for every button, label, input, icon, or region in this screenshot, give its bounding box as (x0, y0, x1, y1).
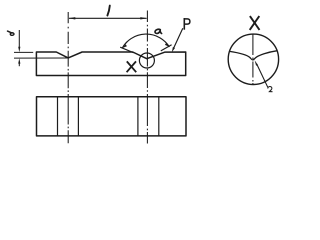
detail radius label (rho/2 glyph) (268, 86, 273, 91)
V2 left face extension line (120, 47, 133, 53)
notch 1 right edge line (plan view) (77, 97, 79, 136)
alpha arc arrowhead left (122, 44, 127, 48)
notch root reference line (d extension, lower) (14, 57, 68, 59)
bottom view outline (37, 97, 187, 136)
label d (rotated, dimension text) (8, 31, 14, 35)
label X above detail view (250, 16, 260, 30)
l dimension line (69, 17, 147, 19)
centerline 1 (notch 1 axis) (67, 12, 69, 143)
label P (applied force) (184, 18, 190, 30)
detail view centerline (252, 34, 254, 84)
force P leader line (173, 28, 183, 49)
d extension line (top) (14, 51, 33, 53)
notch 1 left edge line (plan view) (57, 97, 59, 136)
V2 right face extension line (161, 45, 172, 51)
detail leader arrowhead (255, 60, 258, 65)
angle dimension arc alpha (122, 34, 169, 48)
detail circle marker around notch 2 root (139, 53, 154, 68)
d dimension arrowhead down (18, 47, 20, 52)
d dimension line lower segment (18, 62, 20, 66)
notch 2 right edge line (plan view) (158, 97, 160, 136)
label l (length dimension text) (107, 6, 109, 16)
force P arrowhead (172, 47, 175, 52)
notch 2 left edge line (plan view) (137, 97, 139, 136)
l dimension arrowhead right (140, 17, 147, 19)
detail view circle (228, 34, 278, 84)
centerline 2 (notch 2 axis) (146, 11, 148, 144)
detail view notch faces with root radius (230, 51, 278, 60)
label alpha (notch angle) (155, 29, 162, 33)
alpha arc arrowhead right (165, 43, 170, 47)
front view bar outline with notches (36, 52, 185, 76)
l dimension arrowhead left (69, 17, 76, 19)
d dimension arrowhead up (18, 58, 20, 63)
detail leader line (257, 64, 268, 87)
d dimension line upper segment (18, 30, 20, 48)
label X at notch (front view) (127, 61, 137, 72)
